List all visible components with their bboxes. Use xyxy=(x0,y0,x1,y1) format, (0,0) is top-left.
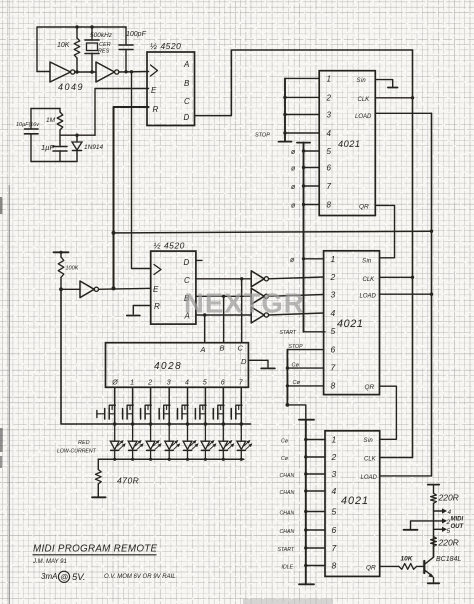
wire buffer out to E U1b xyxy=(99,288,151,289)
svg-text:4: 4 xyxy=(448,509,452,516)
IC U7 4021 shift register xyxy=(325,431,380,577)
wire QR U4 to Sin U5 xyxy=(375,205,394,257)
scan edge artifacts xyxy=(0,0,9,604)
wire 4028 output 7 xyxy=(240,387,244,426)
wire clock U4 xyxy=(375,97,412,99)
label 0 bit at y186 xyxy=(291,184,296,191)
wire U3b out to U5 pin3 xyxy=(269,295,324,297)
wire R U1b to ground xyxy=(133,306,150,315)
svg-text:3: 3 xyxy=(332,469,337,479)
label 1/2 4520 (U1b) xyxy=(154,241,185,251)
svg-text:LOAD: LOAD xyxy=(360,294,377,300)
resistor R1 10K xyxy=(74,25,80,71)
pin label QR U4 xyxy=(359,204,369,211)
pin label A U1a xyxy=(183,60,189,69)
svg-text:A: A xyxy=(183,60,189,69)
label START (U7 pin7) xyxy=(278,547,295,553)
resistor R3 100K xyxy=(58,252,64,289)
svg-text:CLK: CLK xyxy=(363,277,376,283)
pin clock chevron U1a xyxy=(151,65,158,76)
svg-text:3: 3 xyxy=(331,290,336,300)
svg-text:5: 5 xyxy=(203,380,207,387)
pin label LOAD U4 xyxy=(355,114,372,120)
wire load U5 xyxy=(380,293,432,295)
pin label C U1b xyxy=(184,276,190,285)
pin label A U1b xyxy=(184,312,190,321)
capacitor C2 10uF xyxy=(25,109,39,162)
output pin labels 0-7 4028 xyxy=(111,380,244,387)
ground bar 470R xyxy=(92,496,106,498)
wire RC node xyxy=(60,134,95,137)
svg-text:QR: QR xyxy=(359,204,369,211)
pin label R U1a xyxy=(153,105,159,114)
svg-text:ø: ø xyxy=(291,166,296,173)
svg-text:6: 6 xyxy=(332,525,337,535)
pin number 8 U7 xyxy=(332,561,337,571)
label 0 bit U5 pin1 xyxy=(290,257,295,264)
resistor R5 10K xyxy=(399,564,417,570)
watermark NEXTGR xyxy=(184,288,305,319)
wire 4028 output 4 xyxy=(186,387,190,426)
pin label E U1b xyxy=(153,285,159,294)
wire clock U5 xyxy=(380,276,413,278)
svg-text:1µF: 1µF xyxy=(41,143,54,152)
midi pin2 arrow xyxy=(436,518,447,523)
inverter U3b xyxy=(251,288,268,304)
svg-text:ø: ø xyxy=(291,149,296,156)
pin number 7 U4 xyxy=(327,182,332,191)
svg-text:8: 8 xyxy=(331,380,336,390)
note supply rail xyxy=(104,574,176,580)
diode D1 1N914 xyxy=(72,135,82,161)
svg-text:MIDI: MIDI xyxy=(451,516,464,522)
label CHAN (U7 pin6) xyxy=(280,529,295,535)
label 1/2 4520 (U1a) xyxy=(150,41,181,51)
title underline xyxy=(33,554,156,556)
note 3mA at 5V xyxy=(41,571,86,583)
label 4021 (U7) xyxy=(341,495,369,507)
LED D3 red low-current xyxy=(128,424,144,459)
svg-text:3: 3 xyxy=(167,380,171,387)
buffer U3d xyxy=(80,281,99,298)
pushbutton S1 xyxy=(122,405,133,419)
label CHAN (U7 pin5) xyxy=(280,511,295,517)
label C0 (U5 pin7) xyxy=(292,363,300,369)
pin label CLK U5 xyxy=(363,277,376,283)
pushbutton S3 xyxy=(159,405,170,419)
wire QR U5 to Sin U7 xyxy=(380,386,397,439)
wire 4028 output 0 xyxy=(113,387,117,426)
svg-text:7: 7 xyxy=(327,182,332,191)
label 470R xyxy=(117,476,139,486)
pin number 3 U4 xyxy=(327,111,332,120)
svg-text:4: 4 xyxy=(332,486,337,496)
svg-text:5V.: 5V. xyxy=(72,572,86,583)
IC U1a 4520 counter xyxy=(147,52,195,126)
subtitle J.M. MAY 91 xyxy=(32,559,67,565)
wire LED cathode rail xyxy=(98,458,244,461)
svg-text:4: 4 xyxy=(327,129,332,138)
label 0 bit at y167 xyxy=(291,166,296,173)
label 4021 (U5) xyxy=(337,318,363,330)
pin number 1 U5 xyxy=(331,254,336,264)
pin number 3 U5 xyxy=(331,290,336,300)
input label D 4028 xyxy=(241,357,247,366)
svg-text:4: 4 xyxy=(185,380,189,387)
IC U1b 4520 counter xyxy=(151,251,196,324)
svg-text:5: 5 xyxy=(332,507,337,517)
wire QR U7 to base resistor xyxy=(380,565,399,567)
clock bus vertical xyxy=(411,50,414,458)
svg-text:C: C xyxy=(238,344,244,353)
svg-text:A: A xyxy=(200,345,206,354)
svg-text:ø: ø xyxy=(291,184,296,191)
inverter U3c xyxy=(251,307,268,323)
pin label Sin U7 xyxy=(364,438,374,444)
svg-text:470R: 470R xyxy=(117,476,139,486)
svg-text:7: 7 xyxy=(331,363,336,373)
wire clock U7 xyxy=(380,457,413,459)
svg-text:220R: 220R xyxy=(438,493,459,503)
svg-text:Ø: Ø xyxy=(111,380,118,387)
pin number 2 U5 xyxy=(330,272,336,282)
pin label D U1b xyxy=(184,258,190,267)
svg-text:2: 2 xyxy=(326,93,332,102)
wire B output U1b xyxy=(196,295,251,298)
svg-text:Cø: Cø xyxy=(293,380,301,386)
pin label C U1a xyxy=(184,97,190,106)
svg-text:4021: 4021 xyxy=(341,495,369,507)
label pin 2 xyxy=(446,519,451,526)
svg-text:5: 5 xyxy=(327,147,332,156)
wire load U7 xyxy=(380,475,432,477)
wire A to 4028 input A xyxy=(204,315,206,343)
pin label LOAD U5 xyxy=(360,294,377,300)
wire 4028 output 1 xyxy=(131,387,135,426)
svg-text:E: E xyxy=(151,86,157,95)
resistor R6 220R xyxy=(431,485,437,504)
load bus vertical xyxy=(430,113,433,476)
midi pin5 arrow xyxy=(434,527,448,532)
svg-text:S in: S in xyxy=(357,78,367,84)
preset bus U7 (program/channel code) xyxy=(299,420,325,585)
LED D7 red low-current xyxy=(201,424,217,459)
title MIDI PROGRAM REMOTE xyxy=(33,544,158,555)
label CHAN (U7 pin3) xyxy=(280,473,295,479)
svg-text:100K: 100K xyxy=(66,266,79,272)
svg-text:½ 4520: ½ 4520 xyxy=(150,41,181,51)
svg-text:CER: CER xyxy=(99,42,111,48)
svg-text:5: 5 xyxy=(331,326,336,336)
svg-text:BC184L: BC184L xyxy=(436,556,461,563)
wire reset net R1 bus xyxy=(112,107,149,290)
label RED xyxy=(78,440,90,446)
LED D6 red low-current xyxy=(183,424,199,459)
label 1M xyxy=(46,117,56,124)
svg-text:1N914: 1N914 xyxy=(84,144,104,151)
pin number 2 U7 xyxy=(331,452,337,462)
label 4028 xyxy=(154,361,182,372)
wire load U4 to load bus xyxy=(375,112,431,114)
label pin 5 xyxy=(447,528,451,535)
svg-text:LOW-CURRENT: LOW-CURRENT xyxy=(57,449,97,455)
LED D2 red low-current xyxy=(110,424,126,459)
svg-text:J.M. MAY 91: J.M. MAY 91 xyxy=(32,559,67,565)
stub D output U1b xyxy=(196,259,202,261)
midi pin2 ground xyxy=(404,521,437,530)
label OUT xyxy=(451,524,465,530)
wire inverter U2a input xyxy=(37,71,50,73)
pin number 2 U4 xyxy=(326,93,332,102)
svg-text:1M: 1M xyxy=(46,117,56,124)
pin label LOAD U7 xyxy=(361,475,378,481)
svg-text:IDLE: IDLE xyxy=(282,565,294,571)
svg-text:LOAD: LOAD xyxy=(355,114,372,120)
svg-text:ø: ø xyxy=(291,203,296,210)
wire 10K to base xyxy=(417,565,425,567)
svg-text:LOAD: LOAD xyxy=(361,475,378,481)
svg-text:8: 8 xyxy=(327,201,332,210)
wire 4028 output 6 xyxy=(222,387,226,426)
LED D9 red low-current xyxy=(237,424,253,459)
svg-text:CHAN: CHAN xyxy=(280,490,295,496)
pin number 1 U4 xyxy=(327,74,331,83)
wire 4028 output 3 xyxy=(167,387,171,426)
wire 4028 output 5 xyxy=(204,387,208,426)
label 10uF 16V xyxy=(16,122,40,128)
pin label R U1b xyxy=(154,302,160,311)
pin label CLK U7 xyxy=(364,456,377,462)
svg-text:STOP: STOP xyxy=(255,133,270,139)
wire RC top rail xyxy=(31,108,60,110)
preset bus high bits U4 pins1-4 xyxy=(283,78,319,141)
svg-text:6: 6 xyxy=(221,380,225,387)
svg-text:4028: 4028 xyxy=(154,361,182,372)
pin number 6 U5 xyxy=(331,345,336,355)
svg-text:CHAN: CHAN xyxy=(280,529,295,535)
pushbutton S2 xyxy=(140,405,151,419)
wire serial-in U4 grounded xyxy=(375,80,397,88)
pin number 4 U7 xyxy=(332,486,337,496)
wire 4028 output 2 xyxy=(149,387,153,426)
supply bar 220R xyxy=(428,484,439,486)
label CER RES xyxy=(98,42,111,55)
wire U2a out to U2b in xyxy=(75,70,96,73)
preset bus U5 pins 6-8 xyxy=(286,350,324,407)
svg-text:S in: S in xyxy=(364,438,374,444)
svg-text:100pF: 100pF xyxy=(126,31,147,38)
pin number 5 U4 xyxy=(327,147,332,156)
svg-text:500kHz: 500kHz xyxy=(90,32,113,39)
wire A output U1b xyxy=(196,313,251,316)
label BC184L xyxy=(436,556,461,563)
LED D4 red low-current xyxy=(146,424,162,459)
wire feedback loop xyxy=(37,27,126,72)
svg-text:ø: ø xyxy=(290,257,295,264)
svg-text:Cø: Cø xyxy=(281,439,289,445)
IC U4 4021 shift register xyxy=(319,71,375,216)
wire U3c out to U5 pin4 xyxy=(269,313,324,315)
svg-text:RED: RED xyxy=(78,440,90,446)
svg-text:10K: 10K xyxy=(401,556,414,563)
label pin 4 xyxy=(448,509,452,516)
label 500kHz xyxy=(90,32,113,39)
svg-text:½ 4520: ½ 4520 xyxy=(154,241,185,251)
svg-text:1: 1 xyxy=(130,380,134,387)
svg-text:O.V. MOM 6V OR 9V RAIL: O.V. MOM 6V OR 9V RAIL xyxy=(104,574,176,580)
wire enable net to U1a E xyxy=(95,89,149,136)
wire C to 4028 input C xyxy=(241,279,243,343)
svg-text:CHAN: CHAN xyxy=(280,511,295,517)
pin number 3 U7 xyxy=(332,469,337,479)
svg-text:2: 2 xyxy=(147,380,152,387)
svg-text:D: D xyxy=(184,258,190,267)
svg-text:QR: QR xyxy=(365,384,375,391)
svg-text:D: D xyxy=(184,113,190,122)
svg-text:4021: 4021 xyxy=(338,139,360,149)
pin label QR U7 xyxy=(366,565,376,572)
svg-text:6: 6 xyxy=(327,164,332,173)
svg-text:STOP: STOP xyxy=(289,344,304,350)
pin number 5 U7 xyxy=(332,507,337,517)
IC U6 4028 decoder xyxy=(106,343,249,388)
pin clock chevron U1b xyxy=(154,265,161,275)
resistor R7 220R xyxy=(431,537,437,558)
wire B to 4028 input B xyxy=(223,296,225,342)
watermark bottom bar xyxy=(243,599,333,604)
label C0 (U7 pin2) xyxy=(281,456,289,462)
midi pin4 arrow xyxy=(434,508,448,513)
label START (U5 pin5) xyxy=(280,330,297,336)
svg-text:START: START xyxy=(278,547,295,553)
label C0 (U5 pin8) xyxy=(293,380,301,386)
pin label QR U5 xyxy=(365,384,375,391)
pushbutton S4 xyxy=(177,405,188,419)
inverter U2b (4049) xyxy=(96,62,119,82)
capacitor C3 1uF xyxy=(53,147,67,162)
capacitor C1 100pF xyxy=(119,27,133,72)
svg-text:10K: 10K xyxy=(57,42,70,49)
svg-text:C: C xyxy=(184,276,190,285)
IC U5 4021 shift register xyxy=(324,251,380,395)
svg-text:CLK: CLK xyxy=(358,97,371,103)
svg-text:D: D xyxy=(241,357,247,366)
pin number 7 U7 xyxy=(332,543,337,553)
wire oscillator to U1b clock xyxy=(132,72,152,269)
svg-text:3mA: 3mA xyxy=(41,572,57,581)
wire preset bus to U7 bus xyxy=(287,405,305,420)
svg-text:10µF|16v: 10µF|16v xyxy=(16,122,40,128)
svg-text:Cø: Cø xyxy=(292,363,300,369)
svg-text:4049: 4049 xyxy=(58,82,84,92)
pin number 6 U4 xyxy=(327,164,332,173)
pin label D U1a xyxy=(184,113,190,122)
input label B 4028 xyxy=(220,344,225,353)
svg-text:S in: S in xyxy=(362,259,372,265)
input label C 4028 xyxy=(238,344,244,353)
svg-text:R: R xyxy=(153,105,159,114)
wire LED anode feed xyxy=(61,289,251,424)
svg-text:7: 7 xyxy=(332,543,337,553)
svg-text:8: 8 xyxy=(332,561,337,571)
pushbutton S6 xyxy=(213,405,224,419)
label 220R (R7) xyxy=(438,538,459,548)
label LOW-CURRENT xyxy=(57,449,97,455)
pin number 1 U7 xyxy=(332,435,337,445)
pushbutton S0 xyxy=(97,405,116,419)
pin label Sin U4 xyxy=(357,78,367,84)
pin label B U1a xyxy=(184,79,190,88)
wire reset to load bus xyxy=(114,231,432,233)
svg-text:OUT: OUT xyxy=(451,524,465,530)
svg-text:Cø: Cø xyxy=(281,456,289,462)
pin number 4 U4 xyxy=(327,129,332,138)
ground bar emitter xyxy=(428,582,439,584)
svg-text:R: R xyxy=(154,302,160,311)
wire emitter to ground xyxy=(433,577,435,583)
label 10K xyxy=(57,42,70,49)
pin label Sin U5 xyxy=(362,259,372,265)
wire D1 output to clock bus xyxy=(195,50,413,116)
pin number 4 U5 xyxy=(331,308,336,318)
svg-text:6: 6 xyxy=(331,345,336,355)
pin label B U1b xyxy=(184,294,190,303)
svg-text:QR: QR xyxy=(366,565,376,572)
LED D8 red low-current xyxy=(219,424,235,459)
svg-text:B: B xyxy=(184,79,190,88)
label 4049 xyxy=(58,82,84,92)
label 0 bit at y204 xyxy=(291,203,296,210)
wire 0V rail xyxy=(31,161,77,163)
inverter U2a (4049) xyxy=(50,62,75,82)
svg-text:2: 2 xyxy=(331,452,337,462)
wire U3a out to U5 pin2 xyxy=(269,277,324,279)
pin label E U1a xyxy=(151,86,157,95)
supply bar 100K xyxy=(54,251,69,254)
svg-text:NEXTGR: NEXTGR xyxy=(184,288,305,319)
svg-text:2: 2 xyxy=(330,272,336,282)
svg-text:MIDI PROGRAM REMOTE: MIDI PROGRAM REMOTE xyxy=(33,544,158,555)
ceramic resonator X1 500kHz xyxy=(85,25,99,71)
svg-text:4: 4 xyxy=(331,308,336,318)
label IDLE (U7 pin8) xyxy=(282,565,294,571)
svg-text:START: START xyxy=(280,330,297,336)
pin label CLK U4 xyxy=(358,97,371,103)
LED D5 red low-current xyxy=(165,424,181,459)
pin number 8 U4 xyxy=(327,201,332,210)
svg-text:RES: RES xyxy=(98,49,110,55)
label 10K (R5) xyxy=(401,556,414,563)
label 1uF xyxy=(41,143,54,152)
label 100K xyxy=(66,266,79,272)
wire midi current feed xyxy=(433,503,435,557)
pushbutton S7 xyxy=(231,405,242,419)
svg-text:1: 1 xyxy=(327,74,331,83)
svg-text:CLK: CLK xyxy=(364,456,377,462)
inverter U3a xyxy=(251,271,268,287)
svg-text:C: C xyxy=(184,97,190,106)
svg-text:1: 1 xyxy=(331,254,336,264)
label 220R (R6) xyxy=(438,493,459,503)
svg-text:CHAN: CHAN xyxy=(280,473,295,479)
svg-text:B: B xyxy=(220,344,225,353)
svg-text:220R: 220R xyxy=(438,538,459,548)
wire U2b out to U1a clock xyxy=(119,70,149,73)
label 100pF xyxy=(126,31,147,38)
preset bus low bits (pins5-8 U4, pin1/5 U5) xyxy=(297,143,325,332)
resistor R4 470R xyxy=(95,459,101,497)
svg-text:E: E xyxy=(153,285,159,294)
